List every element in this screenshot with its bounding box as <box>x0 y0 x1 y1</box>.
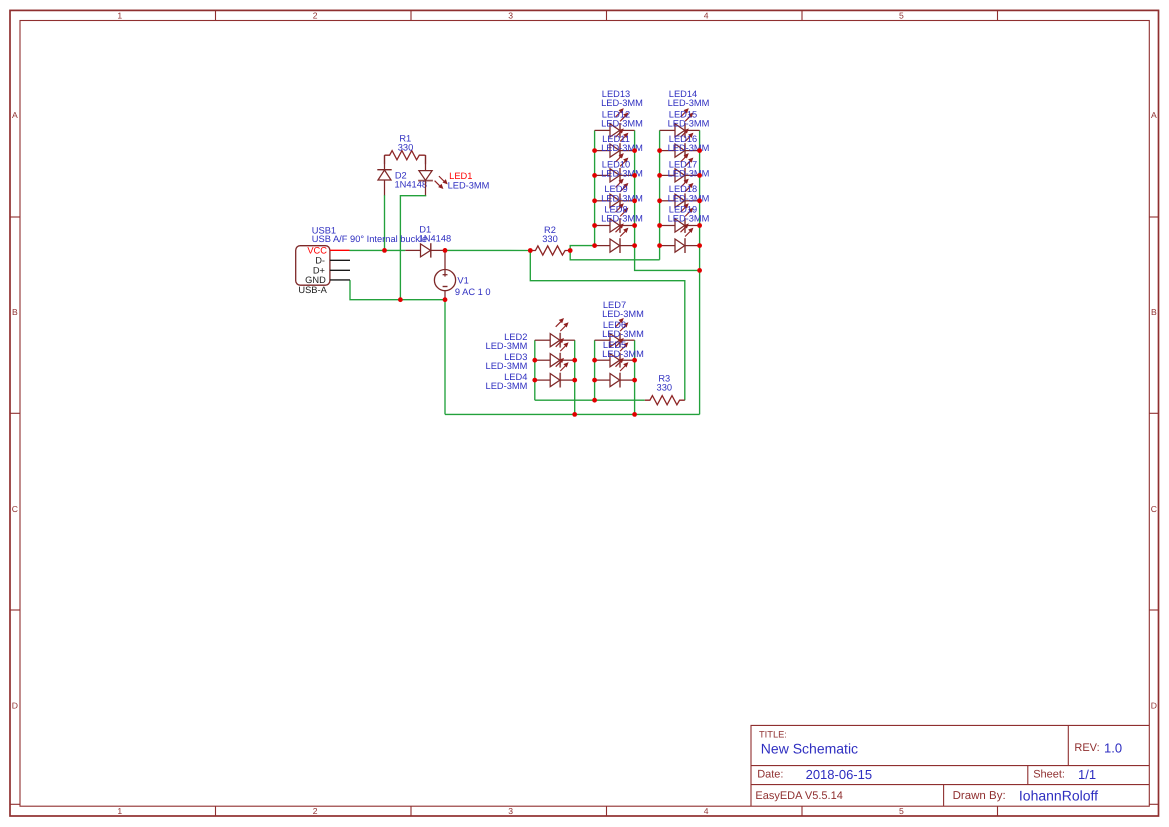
svg-text:5: 5 <box>899 11 904 21</box>
wire GND rail down from V1 to bottom rail <box>444 300 446 415</box>
svg-text:D: D <box>1151 701 1157 711</box>
svg-text:LED-3MM: LED-3MM <box>602 329 644 339</box>
resistor R1 <box>385 151 425 160</box>
svg-text:LED-3MM: LED-3MM <box>668 193 710 203</box>
svg-text:1: 1 <box>117 806 122 816</box>
bottom ruler column numbers 1-5 <box>117 806 904 816</box>
junction column1-column2 cathode tie <box>697 268 702 273</box>
junction column2 right rail y200 <box>697 198 702 203</box>
LED LED16 LED-3MM <box>660 154 700 183</box>
wire bottom-right group right cathode rail <box>634 340 636 414</box>
wire LED column2 left anode rail <box>659 130 661 259</box>
svg-text:A: A <box>1151 110 1157 120</box>
left ruler tick marks <box>10 217 20 610</box>
junction column2 right rail y150 <box>697 148 702 153</box>
LED LED14 LED-3MM <box>660 109 700 138</box>
svg-text:LED-3MM: LED-3MM <box>486 341 528 351</box>
junction column1 left rail y175 <box>592 173 597 178</box>
svg-text:VCC: VCC <box>307 245 327 255</box>
top ruler column numbers 1-5 <box>117 11 904 21</box>
title block border lines <box>751 725 1149 806</box>
diode D1 1N4148 <box>405 243 445 257</box>
junction group-left left rail y360 <box>532 358 537 363</box>
svg-text:5: 5 <box>899 806 904 816</box>
junction group-left cathode on GND return rail <box>572 412 577 417</box>
wire VCC net from USB1 to D1 anode <box>350 249 406 251</box>
wire LED column1 left anode rail <box>594 130 596 245</box>
svg-text:2: 2 <box>313 806 318 816</box>
left ruler band bottom closure <box>10 803 20 805</box>
svg-text:New Schematic: New Schematic <box>761 741 858 757</box>
LED LED7 <box>595 319 635 348</box>
svg-text:LED-3MM: LED-3MM <box>602 349 644 359</box>
svg-text:D-: D- <box>315 255 325 265</box>
junction column1 right rail y200 <box>632 198 637 203</box>
svg-text:A: A <box>12 110 18 120</box>
svg-text:3: 3 <box>508 806 513 816</box>
junction column1 right rail y150 <box>632 148 637 153</box>
svg-text:USB-A: USB-A <box>298 285 327 295</box>
svg-text:Drawn By:: Drawn By: <box>953 790 1006 802</box>
svg-text:D+: D+ <box>313 265 325 275</box>
svg-text:LED-3MM: LED-3MM <box>668 169 710 179</box>
svg-text:330: 330 <box>398 143 414 153</box>
junction V1 minus on GND rail <box>443 297 448 302</box>
junction group-right anode on bottom rail <box>592 398 597 403</box>
LED LED13 LED-3MM <box>595 109 635 138</box>
wire D1 cathode to R2 <box>445 249 530 251</box>
junction column2 left rail y200 <box>657 198 662 203</box>
LED LED8 <box>595 224 635 253</box>
LED LED10 LED-3MM <box>595 179 635 208</box>
junction group-right left rail y380 <box>592 378 597 383</box>
svg-text:2: 2 <box>313 11 318 21</box>
svg-text:V1: V1 <box>457 275 468 285</box>
svg-text:Date:: Date: <box>757 769 783 781</box>
junction group-left right rail y380 <box>572 378 577 383</box>
LED LED12 LED-3MM <box>595 129 635 158</box>
LED LED5 <box>595 358 635 387</box>
wire bottom-left group left anode rail <box>534 340 536 400</box>
wire bottom group anode rail to R3 <box>535 399 645 401</box>
junction group-right cathode on GND return rail <box>632 412 637 417</box>
resistor R3 <box>645 396 685 405</box>
left ruler row letters A-D <box>12 110 18 711</box>
svg-text:LED-3MM: LED-3MM <box>486 381 528 391</box>
svg-text:B: B <box>12 307 18 317</box>
junction R2 left node <box>528 248 533 253</box>
svg-text:GND: GND <box>305 275 326 285</box>
junction D1-V1 node <box>443 248 448 253</box>
svg-text:1N4148: 1N4148 <box>419 233 452 243</box>
junction column1 cathode bottom <box>632 243 637 248</box>
wire LED column1 right cathode rail to column2 <box>635 130 700 270</box>
svg-text:Sheet:: Sheet: <box>1033 769 1065 781</box>
junction group-right left rail y360 <box>592 358 597 363</box>
connector USB1 pin 4 GND stub <box>330 279 350 281</box>
right ruler row letters A-D <box>1151 110 1157 711</box>
svg-text:B: B <box>1151 307 1157 317</box>
svg-text:3: 3 <box>508 11 513 21</box>
svg-text:LED-3MM: LED-3MM <box>601 98 643 108</box>
svg-text:1: 1 <box>117 11 122 21</box>
svg-text:LED-3MM: LED-3MM <box>602 309 644 319</box>
wire bottom-left group right cathode rail <box>574 340 576 414</box>
svg-text:LED-3MM: LED-3MM <box>668 118 710 128</box>
svg-text:C: C <box>1151 504 1157 514</box>
wire D2 anode down to VCC node <box>384 195 386 250</box>
LED LED2 <box>535 319 575 348</box>
junction group-right right rail y360 <box>632 358 637 363</box>
junction group-left left rail y380 <box>532 378 537 383</box>
right ruler band bottom closure <box>1149 803 1158 805</box>
wire bottom GND return rail <box>445 413 700 415</box>
svg-text:4: 4 <box>704 806 709 816</box>
svg-text:2018-06-15: 2018-06-15 <box>806 767 873 782</box>
svg-text:4: 4 <box>704 11 709 21</box>
svg-text:IohannRoloff: IohannRoloff <box>1019 787 1098 803</box>
svg-text:1/1: 1/1 <box>1078 767 1096 782</box>
svg-text:LED-3MM: LED-3MM <box>486 361 528 371</box>
connector USB1 pin 2 D- stub <box>330 259 350 261</box>
wire R2 output jog up to column1 anodes <box>570 246 594 251</box>
junction column2 left rail y150 <box>657 148 662 153</box>
junction column1 left rail y150 <box>592 148 597 153</box>
LED LED1 pointing down <box>418 155 447 195</box>
junction column2 right rail y225 <box>697 223 702 228</box>
bottom ruler tick marks <box>216 806 998 816</box>
diode D2 1N4148 pointing up <box>377 155 391 195</box>
LED LED4 <box>535 358 575 387</box>
junction LED1 return on GND rail <box>398 297 403 302</box>
wire R2 output jog down to column2 anodes <box>570 251 659 260</box>
junction column1 left rail y225 <box>592 223 597 228</box>
junction column2 left rail y175 <box>657 173 662 178</box>
resistor R1 lead corners down to D2 and LED1 <box>385 155 426 164</box>
resistor R2 <box>530 246 570 255</box>
svg-text:LED-3MM: LED-3MM <box>601 118 643 128</box>
svg-text:LED-3MM: LED-3MM <box>448 180 490 190</box>
LED LED19 <box>660 224 700 253</box>
junction column1 left rail y200 <box>592 198 597 203</box>
LED LED3 <box>535 339 575 368</box>
top ruler tick marks <box>216 10 998 20</box>
wire R2 input node down and right to R3 <box>530 251 685 401</box>
junction column2 anode feed <box>657 243 662 248</box>
junction column1 right rail y225 <box>632 223 637 228</box>
svg-text:330: 330 <box>542 234 558 244</box>
svg-text:REV:: REV: <box>1074 742 1099 754</box>
junction VCC-D2 node <box>382 248 387 253</box>
junction column2 right rail y175 <box>697 173 702 178</box>
svg-text:LED-3MM: LED-3MM <box>668 143 710 153</box>
wire LED1 cathode jog to GND vertical <box>400 195 425 300</box>
junction group-right right rail y380 <box>632 378 637 383</box>
junction column2 left rail y225 <box>657 223 662 228</box>
wire USB1 GND pin down and right to GND rail <box>350 280 445 300</box>
svg-text:9 AC 1 0: 9 AC 1 0 <box>455 287 491 297</box>
LED LED9 LED-3MM <box>595 204 635 233</box>
svg-text:TITLE:: TITLE: <box>759 729 787 739</box>
svg-text:LED-3MM: LED-3MM <box>668 213 710 223</box>
svg-text:USB A/F 90° Internal buckle: USB A/F 90° Internal buckle <box>312 234 427 244</box>
svg-text:C: C <box>12 504 18 514</box>
wire bottom-right group left anode rail <box>594 340 596 400</box>
connector USB1 pin 3 D+ stub <box>330 269 350 271</box>
LED LED6 <box>595 339 635 368</box>
LED LED11 LED-3MM <box>595 154 635 183</box>
svg-text:330: 330 <box>657 383 673 393</box>
svg-text:LED-3MM: LED-3MM <box>668 98 710 108</box>
junction R2 right node <box>568 248 573 253</box>
svg-text:EasyEDA V5.5.14: EasyEDA V5.5.14 <box>755 790 842 802</box>
junction column1 anode feed <box>592 243 597 248</box>
junction group-left right rail y360 <box>572 358 577 363</box>
svg-text:1.0: 1.0 <box>1104 740 1122 755</box>
LED LED17 LED-3MM <box>660 179 700 208</box>
svg-text:LED-3MM: LED-3MM <box>601 169 643 179</box>
connector USB1 pin 1 VCC stub <box>330 249 350 251</box>
wire LED column2 right cathode rail <box>699 130 701 414</box>
junction column1 right rail y175 <box>632 173 637 178</box>
LED LED15 LED-3MM <box>660 129 700 158</box>
right ruler tick marks <box>1149 217 1158 610</box>
svg-text:D: D <box>12 701 18 711</box>
LED LED18 LED-3MM <box>660 204 700 233</box>
junction column2 cathode bottom <box>697 243 702 248</box>
svg-text:LED-3MM: LED-3MM <box>601 213 643 223</box>
AC source V1 circle symbol <box>434 250 455 299</box>
connector USB1 body <box>296 246 330 286</box>
